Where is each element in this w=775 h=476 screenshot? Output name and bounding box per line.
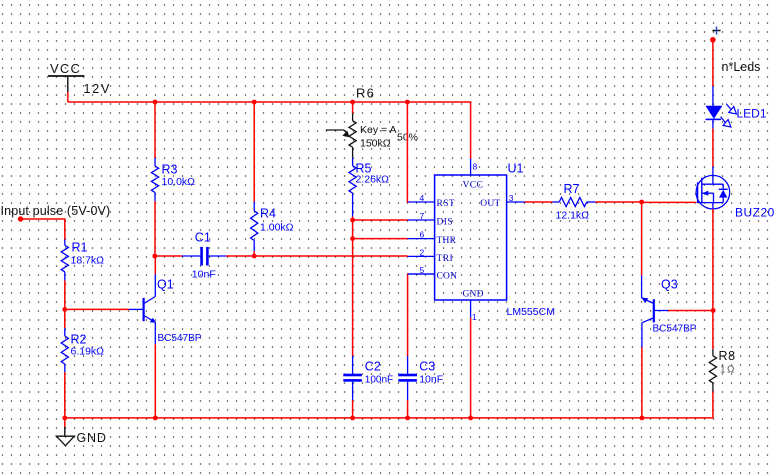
wire R4 top lead	[253, 102, 255, 202]
label R3 value	[162, 176, 196, 188]
wire Q3 collector to rail	[641, 347, 643, 418]
wire R1 bottom to node	[64, 281, 66, 311]
MOSFET BUZ20	[696, 167, 730, 210]
junction gnd pin1	[468, 416, 473, 421]
label 12V	[84, 82, 112, 96]
junction Q1 base node	[62, 307, 67, 312]
svg-text:C1: C1	[195, 231, 211, 245]
svg-text:GND: GND	[77, 431, 107, 445]
pin label TRI	[437, 254, 454, 264]
svg-text:DIS: DIS	[437, 218, 454, 228]
pin number 8	[473, 162, 478, 172]
input terminal	[18, 216, 23, 221]
label R4	[260, 207, 276, 221]
pin label RST	[437, 199, 456, 209]
wire C1 left	[155, 255, 182, 257]
svg-text:7: 7	[420, 211, 425, 221]
svg-text:LED1: LED1	[737, 107, 767, 121]
label R6 percent	[397, 132, 418, 144]
pin number 3	[509, 193, 514, 203]
capacitor C1	[182, 247, 226, 266]
junction RST drop	[405, 100, 410, 105]
wire R4 bottom	[253, 251, 255, 256]
svg-text:2: 2	[420, 247, 425, 257]
wire VCC rail	[68, 101, 471, 103]
capacitor C3	[398, 356, 417, 400]
pin label CON	[437, 272, 458, 282]
label Q3 type	[653, 324, 697, 335]
pin label GND	[463, 290, 484, 300]
resistor R5	[349, 158, 356, 217]
label GND	[77, 431, 107, 445]
svg-text:10.0kΩ: 10.0kΩ	[162, 176, 196, 188]
label Q1	[157, 278, 174, 292]
svg-text:n*Leds: n*Leds	[722, 60, 761, 74]
wire OUT node down to Q3	[641, 202, 643, 276]
svg-text:10nF: 10nF	[192, 269, 216, 281]
pin number 6	[420, 230, 425, 240]
svg-text:1.00kΩ: 1.00kΩ	[260, 222, 294, 234]
junction C1 right	[252, 254, 257, 259]
svg-text:VCC: VCC	[463, 181, 484, 191]
svg-text:R2: R2	[71, 333, 87, 347]
pin label THR	[437, 236, 457, 246]
junction gnd Q3	[640, 416, 645, 421]
wire R6 top lead	[352, 102, 354, 113]
pin number 7	[420, 211, 425, 221]
svg-text:10nF: 10nF	[419, 374, 443, 386]
label R5	[356, 162, 372, 176]
junction R4 top	[252, 100, 257, 105]
label C2	[365, 360, 381, 374]
junction gnd Q1	[153, 416, 158, 421]
label R4 value	[260, 222, 294, 234]
label R2	[71, 333, 87, 347]
wire input down to R1	[64, 218, 66, 239]
wire Q1 emitter	[154, 344, 156, 418]
junction R6 top	[350, 100, 355, 105]
label R5 value	[356, 174, 390, 186]
label R6 value	[360, 138, 391, 150]
op-amp U1 LM555CM body	[408, 159, 525, 318]
svg-text:BUZ20: BUZ20	[735, 206, 775, 220]
wire R8 bottom corner	[712, 392, 714, 419]
label R1	[72, 241, 88, 255]
svg-text:3: 3	[509, 193, 514, 203]
svg-text:BC547BP: BC547BP	[653, 324, 697, 335]
wire Q3 base	[668, 310, 713, 312]
svg-text:CON: CON	[437, 272, 458, 282]
wire R7 to gate node	[596, 201, 642, 203]
svg-text:100nF: 100nF	[365, 375, 393, 386]
svg-text:1Ω: 1Ω	[720, 365, 736, 376]
wire R2 bottom to ground rail	[64, 372, 66, 418]
label R1 value	[71, 255, 105, 267]
junction R3 top	[153, 100, 158, 105]
label R6	[356, 86, 375, 101]
junction OUT node	[639, 200, 644, 205]
label Q1 type	[158, 333, 202, 344]
svg-text:R4: R4	[260, 207, 276, 221]
wire VCC stub	[67, 92, 69, 102]
label n*Leds	[722, 60, 761, 74]
label C1	[195, 231, 211, 245]
svg-text:Input pulse (5V-0V): Input pulse (5V-0V)	[1, 204, 111, 218]
svg-text:OUT: OUT	[480, 199, 500, 209]
svg-text:LM555CM: LM555CM	[507, 306, 555, 318]
svg-text:U1: U1	[508, 162, 524, 176]
wire C1 right to TRI	[226, 255, 407, 257]
label R8 value	[720, 365, 736, 376]
resistor R1	[61, 240, 68, 281]
label R6 key	[360, 124, 396, 136]
wire Q1 base	[65, 308, 129, 310]
svg-text:6.19kΩ: 6.19kΩ	[71, 346, 105, 358]
transistor Q3	[641, 276, 668, 348]
label BUZ20	[735, 206, 775, 220]
junction gnd C2	[350, 416, 355, 421]
label R2 value	[71, 346, 105, 358]
resistor R7	[553, 197, 596, 206]
svg-text:VCC: VCC	[50, 61, 81, 76]
label R7	[564, 182, 580, 196]
svg-text:5: 5	[420, 265, 425, 275]
svg-text:6: 6	[420, 230, 425, 240]
wire C2 bottom	[352, 400, 354, 418]
junction source node	[711, 308, 716, 313]
wire CON drop	[407, 273, 409, 356]
svg-text:18.7kΩ: 18.7kΩ	[71, 255, 105, 267]
wire source node to R8	[712, 311, 714, 350]
wire CON	[408, 273, 435, 275]
wire THR	[353, 238, 408, 240]
label R8	[719, 349, 736, 363]
svg-text:R8: R8	[719, 349, 736, 363]
label C2 value	[365, 375, 393, 386]
wire ground rail	[65, 417, 713, 419]
junction DIS node	[350, 218, 355, 223]
label U1	[508, 162, 524, 176]
resistor R8	[709, 349, 716, 392]
svg-text:Q1: Q1	[157, 278, 174, 292]
svg-text:C3: C3	[419, 360, 435, 374]
svg-text:BC547BP: BC547BP	[158, 333, 202, 344]
pin label OUT	[480, 199, 500, 209]
svg-text:Key = A: Key = A	[360, 124, 396, 136]
ground	[56, 418, 74, 446]
svg-text:150kΩ: 150kΩ	[360, 138, 391, 150]
wire plus to LED	[712, 40, 714, 86]
wire R5 bottom	[352, 217, 354, 221]
svg-text:4: 4	[420, 193, 425, 203]
wire OUT	[525, 201, 553, 203]
resistor R4	[251, 202, 258, 252]
plus terminal	[710, 27, 720, 43]
junction gnd C3	[405, 416, 410, 421]
label R3	[162, 163, 178, 177]
wire VCC rail drop to pin8	[470, 101, 472, 158]
potentiometer R6	[326, 113, 356, 157]
junction C1 left	[152, 254, 157, 259]
svg-text:RST: RST	[437, 199, 456, 209]
label C3 value	[419, 374, 443, 386]
svg-text:2.26kΩ: 2.26kΩ	[356, 174, 390, 186]
LED LED1	[705, 86, 736, 128]
svg-text:GND: GND	[463, 290, 484, 300]
pin label VCC	[463, 181, 484, 191]
label Q3	[661, 278, 678, 292]
transistor Q1	[129, 274, 156, 344]
svg-text:THR: THR	[437, 236, 457, 246]
wire down to C2	[352, 239, 354, 356]
wire Q1 collector	[154, 256, 156, 274]
svg-text:12V: 12V	[84, 82, 112, 96]
svg-text:TRI: TRI	[437, 254, 454, 264]
resistor R2	[61, 328, 68, 372]
svg-text:C2: C2	[365, 360, 381, 374]
pin number 1	[472, 312, 477, 322]
resistor R3	[151, 158, 158, 201]
wire node to R2	[64, 309, 66, 328]
pin number 5	[420, 265, 425, 275]
junction gnd GND	[62, 416, 67, 421]
label LED1	[737, 107, 767, 121]
pin number 4	[420, 193, 425, 203]
pin label DIS	[437, 218, 454, 228]
wire MOSFET source down	[712, 209, 714, 311]
svg-text:R1: R1	[72, 241, 88, 255]
label C3	[419, 360, 435, 374]
pin number 2	[420, 247, 425, 257]
wire R3 bottom	[154, 201, 156, 256]
junction THR node	[350, 236, 355, 241]
wire LED to MOSFET	[712, 129, 714, 167]
svg-text:R3: R3	[162, 163, 178, 177]
svg-text:8: 8	[473, 162, 478, 172]
svg-text:12.1kΩ: 12.1kΩ	[556, 210, 590, 222]
svg-text:R7: R7	[564, 182, 580, 196]
svg-text:1: 1	[472, 312, 477, 322]
wire R3 top lead	[154, 102, 156, 158]
wire RST from rail	[406, 102, 408, 203]
label Input pulse (5V-0V)	[1, 204, 111, 218]
wire down to THR node	[352, 220, 354, 239]
wire input horizontal	[21, 218, 65, 220]
wire DIS	[353, 219, 408, 221]
power symbol VCC	[48, 61, 85, 93]
wire gate	[642, 201, 697, 203]
svg-text:R6: R6	[356, 86, 375, 101]
label C1 value	[192, 269, 216, 281]
capacitor C2	[343, 356, 362, 400]
wire C3 bottom	[407, 400, 409, 418]
svg-text:Q3: Q3	[661, 278, 678, 292]
label R7 value	[556, 210, 590, 222]
wire pin1 to ground rail	[470, 318, 472, 419]
label U1 type	[507, 306, 555, 318]
